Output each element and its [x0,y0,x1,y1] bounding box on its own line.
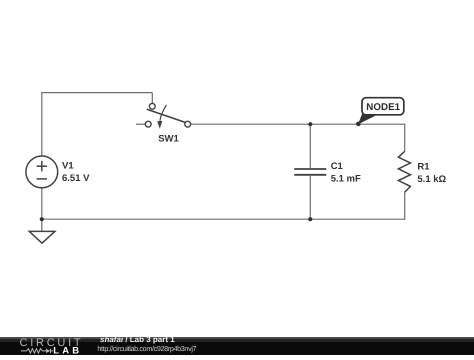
resistor R1 [398,151,410,192]
switch terminal left throw [145,121,151,127]
junction capacitor bottom [308,217,312,221]
wire bottom rail [42,218,405,220]
svg-text:NODE1: NODE1 [366,102,400,113]
switch terminal common right [185,121,191,127]
node A dot (NODE1 anchor) [356,122,361,127]
svg-text:V1: V1 [62,161,74,172]
wire switch top drop [151,93,153,104]
svg-text:SW1: SW1 [158,133,179,144]
wire left vertical (top wire to V1) [41,92,43,156]
wire switch left stub [136,123,145,125]
capacitor C1 [294,169,326,175]
NODE1 flag box [362,98,404,115]
ground [29,231,55,243]
voltage source V1 [26,156,58,188]
switch blade [147,109,186,122]
footer bar [0,337,474,355]
wire right vertical below R1 [404,192,406,220]
NODE1 flag tail [358,111,378,124]
svg-text:6.51 V: 6.51 V [62,173,90,184]
switch SW1 [145,103,190,128]
svg-text:R1: R1 [417,162,430,173]
junction ground [40,217,44,221]
wire V1 bottom [41,188,43,219]
svg-text:5.1 kΩ: 5.1 kΩ [417,174,446,185]
svg-text:http://circuitlab.com/c928rp4b: http://circuitlab.com/c928rp4b3nvj7 [97,344,196,353]
switch terminal top [149,103,155,109]
svg-text:shafai / Lab 3 part 1: shafai / Lab 3 part 1 [100,335,175,344]
logo doodle resistor+diode [21,349,53,353]
wire capacitor top [309,124,311,168]
wire top-left horizontal [42,92,153,94]
svg-text:C1: C1 [331,161,344,172]
junction capacitor top [308,122,312,126]
wire capacitor bottom [309,176,311,219]
switch actuator arrow [160,105,167,121]
wire top rail [191,123,405,125]
wire right vertical above R1 [404,124,406,152]
wire ground drop [41,219,43,231]
svg-text:5.1 mF: 5.1 mF [331,174,361,185]
svg-text:LAB: LAB [53,346,82,355]
